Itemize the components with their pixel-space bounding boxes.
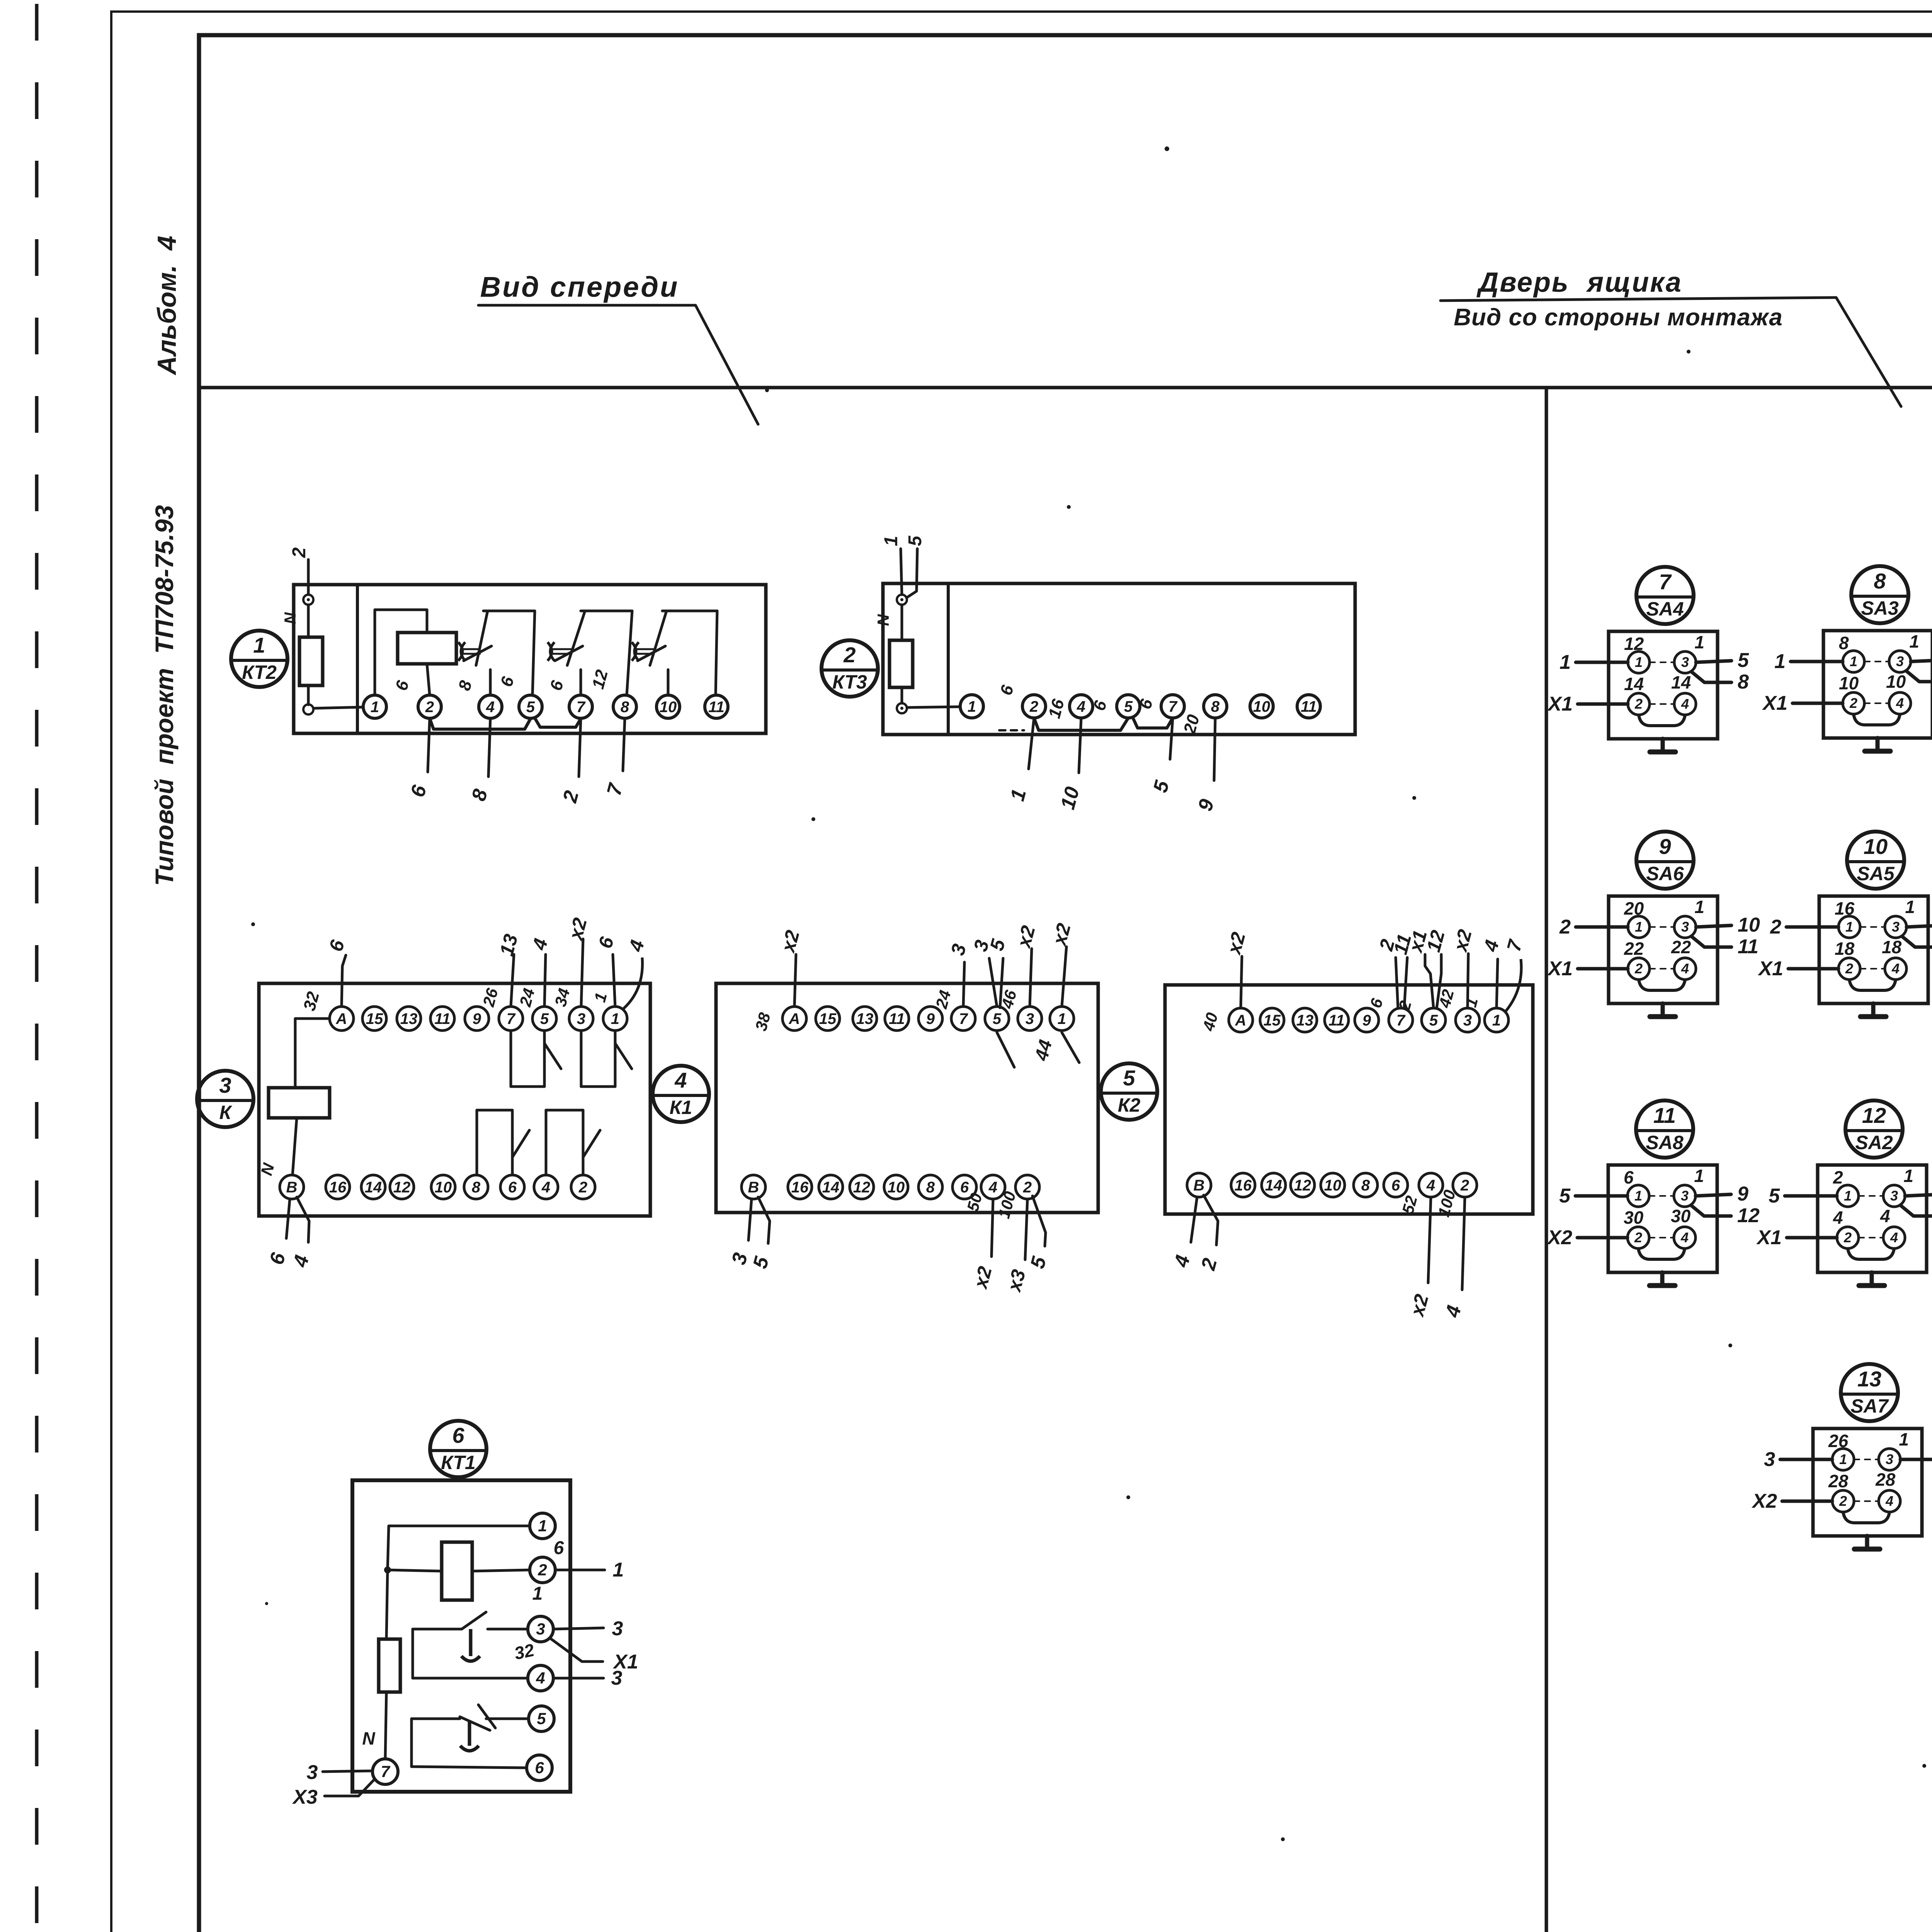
svg-text:30: 30 [1671, 1206, 1691, 1226]
relay KT3 terminal 7 [1161, 695, 1184, 718]
svg-text:14: 14 [1265, 1177, 1282, 1194]
svg-text:16: 16 [329, 1179, 347, 1196]
switch SA4 right wire to label 5 [1696, 661, 1731, 662]
svg-text:1: 1 [1774, 650, 1786, 673]
relay KT2 inner divider [356, 585, 359, 733]
relay KT2 terminal 2 [418, 695, 441, 718]
svg-text:3: 3 [307, 1761, 318, 1784]
svg-text:4: 4 [1896, 695, 1904, 711]
relay KT2 lead from terminal 2 with label 6 [428, 718, 430, 772]
switch SA6 bottom link pins 2-4 [1639, 980, 1685, 990]
svg-text:X2: X2 [1751, 1490, 1777, 1512]
relay KT3 bottom bridge 2-5 [1034, 718, 1128, 730]
relay KT2 lead from terminal 7 with label 2 [579, 718, 581, 777]
svg-text:3: 3 [1681, 654, 1689, 670]
svg-text:14: 14 [822, 1179, 840, 1196]
switch SA3 ground symbol [1876, 738, 1880, 751]
relay K lead from 5 with label 4 [544, 954, 546, 1007]
switch SA8 left wire 5 to pin 1 [1575, 1194, 1628, 1198]
svg-text:14: 14 [365, 1179, 382, 1196]
switch SA4 left wire X1 to pin 2 [1578, 702, 1628, 706]
switch SA8 pin 2 [1628, 1227, 1649, 1248]
svg-text:B: B [286, 1179, 298, 1196]
svg-text:1: 1 [881, 536, 901, 546]
svg-text:3: 3 [1681, 1188, 1689, 1204]
switch SA3 dashed links [1864, 661, 1889, 662]
svg-text:4: 4 [1890, 1230, 1898, 1245]
svg-text:3: 3 [1896, 653, 1904, 669]
svg-text:К2: К2 [1118, 1094, 1141, 1116]
relay K2 terminal 7 (top row) [1389, 1008, 1413, 1032]
relay K2 lead from 4 with label х2 [1428, 1197, 1431, 1283]
relay K2 terminal 10 (bottom row) [1321, 1173, 1345, 1197]
svg-text:7: 7 [1659, 570, 1672, 594]
relay K2 terminal 5 (top row) [1422, 1008, 1446, 1032]
svg-text:6: 6 [508, 1179, 517, 1196]
svg-text:7: 7 [1168, 698, 1178, 715]
relay K coil [269, 1088, 330, 1118]
svg-text:3: 3 [1463, 1012, 1472, 1029]
svg-text:1: 1 [1844, 1188, 1852, 1204]
svg-text:3: 3 [577, 1010, 585, 1027]
relay K2 terminal B (bottom row) [1187, 1173, 1211, 1197]
svg-text:2: 2 [1634, 1230, 1642, 1245]
relay K lead from 1 with label 6 [613, 954, 615, 1007]
svg-text:Дверь ящика: Дверь ящика [1476, 267, 1682, 298]
switch SA5 designator circle 10/SA5 [1847, 832, 1904, 889]
relay KT2 terminal 10 [656, 695, 680, 718]
relay KT2 terminal N (bottom) [303, 704, 313, 714]
relay K2 lead from A with label х2 [1241, 956, 1242, 1008]
svg-text:28: 28 [1828, 1471, 1849, 1491]
svg-text:N: N [281, 612, 299, 624]
svg-text:12: 12 [1862, 1103, 1886, 1128]
svg-text:1: 1 [1850, 653, 1857, 669]
switch SA4 ground symbol [1661, 739, 1665, 752]
svg-text:5: 5 [1123, 1066, 1135, 1090]
svg-text:3: 3 [1026, 1010, 1034, 1027]
svg-text:11: 11 [1738, 935, 1759, 958]
svg-text:7: 7 [507, 1010, 516, 1027]
svg-text:B: B [748, 1179, 759, 1196]
switch SA6 dashed links [1650, 926, 1674, 928]
svg-text:13: 13 [1296, 1012, 1314, 1029]
relay KT3 terminal 5 [1117, 695, 1140, 718]
relay K1 designator circle 4/К1 [653, 1066, 709, 1122]
switch SA3 designator circle 8/SA3 [1851, 566, 1908, 623]
svg-text:4: 4 [541, 1179, 550, 1196]
switch SA7 pin 1 [1832, 1449, 1854, 1470]
relay K terminal 1 (top row) [603, 1007, 627, 1031]
svg-text:11: 11 [708, 699, 724, 716]
switch SA6 designator circle 9/SA6 [1636, 832, 1694, 889]
svg-text:X1: X1 [1547, 693, 1573, 715]
svg-text:1: 1 [1909, 631, 1919, 651]
svg-text:N: N [362, 1728, 375, 1748]
svg-text:12: 12 [393, 1179, 411, 1196]
relay K contact 3-1 [580, 1031, 583, 1087]
svg-text:3: 3 [1681, 919, 1689, 935]
svg-text:2: 2 [1029, 698, 1038, 715]
relay KT1 wiring terminal1-junction-coil-terminal2 [388, 1526, 530, 1570]
switch SA6 ground symbol [1661, 1003, 1665, 1017]
svg-text:10: 10 [1738, 914, 1760, 936]
relay K1 terminal 7 (top row) [951, 1007, 975, 1031]
svg-text:4: 4 [1077, 698, 1085, 715]
relay KT1 diagonal lead to X1 [550, 1638, 603, 1662]
svg-text:8: 8 [1738, 671, 1749, 693]
relay K2 terminal 8 (bottom row) [1354, 1173, 1378, 1197]
relay KT2 terminal 7 [569, 695, 592, 718]
relay KT2 designator circle 1/КТ2 [231, 631, 287, 687]
svg-text:11: 11 [1301, 698, 1317, 715]
relay KT1 left lead X3 to N [325, 1780, 374, 1796]
relay KT3 terminal N (bottom) [897, 703, 907, 713]
svg-text:11: 11 [434, 1010, 451, 1027]
svg-text:SA6: SA6 [1646, 863, 1684, 884]
relay K1 lead from 1 with label х2 [1062, 947, 1066, 1007]
relay K2 leads from 7 with labels 2 and 11 [1396, 957, 1398, 1009]
switch SA3 right wire to label 7 [1911, 660, 1932, 662]
switch SA2 pin 3 [1883, 1185, 1905, 1207]
relay K coil wiring from A to B [295, 1019, 330, 1088]
relay K terminal 16 (bottom row) [326, 1175, 350, 1199]
relay K1 terminal 14 (bottom row) [819, 1175, 843, 1199]
switch SA3 right diagonal wire to label 10 [1906, 671, 1932, 682]
switch SA3 left wire X1 to pin 2 [1793, 702, 1843, 705]
svg-text:16: 16 [1235, 1177, 1252, 1194]
svg-text:22: 22 [1624, 939, 1644, 959]
relay KT2 body box [294, 585, 766, 733]
relay KT1 resistor [379, 1639, 400, 1692]
svg-text:9: 9 [1659, 834, 1671, 859]
switch SA2 right wire to label 11 [1905, 1194, 1932, 1196]
svg-text:5: 5 [1559, 1185, 1571, 1207]
svg-text:SA2: SA2 [1855, 1132, 1893, 1153]
relay K1 lead from 4 with label х2 [992, 1199, 993, 1257]
switch SA4 body box [1609, 631, 1718, 739]
svg-text:8: 8 [1211, 698, 1220, 715]
switch SA5 pin 2 [1838, 958, 1860, 980]
svg-text:1: 1 [1694, 1166, 1704, 1186]
svg-text:1: 1 [968, 698, 976, 715]
relay K2 terminal 1 (top row) [1485, 1008, 1509, 1032]
relay K body box [259, 983, 650, 1216]
switch SA5 right diagonal wire to label 9 [1902, 936, 1932, 947]
svg-text:8: 8 [1839, 633, 1849, 653]
relay K2 lead from 3 with label х2 [1468, 954, 1468, 1008]
svg-text:13: 13 [856, 1010, 874, 1027]
svg-text:18: 18 [1882, 937, 1902, 957]
switch SA7 left wire 3 to pin 1 [1780, 1458, 1832, 1461]
svg-text:2: 2 [1634, 961, 1643, 976]
svg-text:9: 9 [1362, 1012, 1371, 1029]
svg-text:6: 6 [452, 1423, 464, 1447]
svg-text:2: 2 [1844, 1230, 1852, 1245]
relay KT2 terminal 8 [613, 695, 636, 718]
switch SA5 left wire X1 to pin 2 [1788, 967, 1838, 971]
relay K1 terminal B (bottom row) [742, 1175, 765, 1199]
switch SA4 left wire 1 to pin 1 [1576, 661, 1628, 664]
switch SA6 pin 3 [1674, 916, 1696, 938]
switch SA2 body box [1818, 1165, 1927, 1272]
relay KT1 terminal 1 [530, 1513, 555, 1539]
svg-text:14: 14 [1671, 672, 1691, 692]
wire N to terminal 1 [313, 707, 363, 708]
relay KT3 terminal 4 [1070, 695, 1093, 718]
relay K terminal 13 (top row) [397, 1007, 421, 1031]
switch SA6 left wire X1 to pin 2 [1578, 967, 1628, 971]
left fold dashed line [35, 4, 39, 1932]
relay KT3 terminal 8 [1204, 695, 1227, 718]
svg-text:5: 5 [526, 699, 535, 716]
relay K2 terminal 9 (top row) [1355, 1008, 1379, 1032]
svg-text:7: 7 [959, 1010, 968, 1027]
relay K terminal 7 (top row) [499, 1007, 523, 1031]
relay KT1 timed contact lower [410, 1719, 413, 1767]
switch SA8 bottom link pins 2-4 [1638, 1248, 1685, 1259]
relay KT3 bottom bridge 5-7 [1133, 718, 1173, 728]
switch SA3 pin 3 [1889, 651, 1911, 672]
svg-text:2: 2 [1634, 696, 1643, 712]
svg-text:5: 5 [993, 1010, 1002, 1027]
svg-text:2: 2 [1833, 1167, 1843, 1187]
svg-text:13: 13 [1857, 1367, 1881, 1391]
svg-text:X1: X1 [1756, 1226, 1782, 1249]
svg-text:4: 4 [486, 699, 495, 716]
svg-text:X1: X1 [1757, 957, 1783, 980]
relay K contact 8-6 [477, 1109, 512, 1112]
relay KT1 lead terminal 3 to label 3 [553, 1628, 604, 1629]
switch SA7 dashed links [1854, 1459, 1879, 1460]
svg-text:10: 10 [1886, 672, 1906, 692]
svg-text:1: 1 [1635, 654, 1643, 670]
relay KT2 contact group 1 [483, 610, 535, 612]
svg-text:6: 6 [1391, 1177, 1400, 1194]
svg-text:1: 1 [1492, 1012, 1501, 1029]
switch SA6 pin 1 [1628, 916, 1650, 938]
relay K1 terminal 16 (bottom row) [788, 1175, 812, 1199]
top band separator line [199, 386, 1932, 389]
svg-text:10: 10 [1324, 1177, 1342, 1194]
svg-text:3: 3 [611, 1667, 622, 1689]
relay KT3 lead from terminal 7 with label 5 [1170, 718, 1173, 759]
svg-text:3: 3 [1892, 919, 1900, 935]
svg-text:К1: К1 [670, 1097, 692, 1118]
svg-text:A: A [789, 1010, 800, 1027]
switch SA6 pin 4 [1674, 958, 1696, 980]
svg-text:12: 12 [1737, 1204, 1760, 1227]
relay K leads from B with labels 6 and 4 [286, 1199, 290, 1238]
svg-text:1: 1 [611, 1010, 619, 1027]
svg-text:20: 20 [1624, 898, 1644, 918]
relay K1 body box [716, 983, 1098, 1213]
svg-text:9: 9 [926, 1010, 935, 1027]
svg-text:5: 5 [1429, 1012, 1438, 1029]
svg-text:1: 1 [1058, 1010, 1066, 1027]
relay KT3 lead from terminal 8 with label 9 [1214, 718, 1215, 781]
svg-text:7: 7 [1396, 1012, 1406, 1029]
relay K terminal 5 (top row) [532, 1007, 556, 1031]
relay KT2 contact group 2 [581, 610, 632, 612]
switch SA5 pin 1 [1838, 916, 1860, 938]
right column divider line [1545, 388, 1548, 1932]
switch SA4 dashed links [1650, 662, 1674, 663]
switch SA7 bottom link pins 2-4 [1843, 1512, 1889, 1523]
svg-text:10: 10 [1839, 673, 1859, 693]
switch SA6 body box [1609, 896, 1718, 1003]
switch SA3 bottom link pins 2-4 [1854, 714, 1900, 725]
svg-text:2: 2 [1849, 695, 1857, 711]
relay K terminal A (top row) [330, 1007, 354, 1031]
relay K1 terminal 4 (bottom row) [981, 1175, 1005, 1199]
switch SA8 right wire to label 9 [1696, 1194, 1731, 1196]
switch SA7 designator circle 13/SA7 [1841, 1364, 1898, 1421]
relay KT2 coil [398, 633, 456, 664]
switch SA5 bottom link pins 2-4 [1849, 980, 1896, 990]
svg-text:2: 2 [1845, 961, 1853, 976]
relay K2 body box [1165, 985, 1533, 1214]
svg-text:8: 8 [926, 1179, 935, 1196]
relay K1 contact diagonal below 5 [997, 1032, 1014, 1067]
relay KT2 terminal 5 [519, 695, 542, 718]
relay K2 terminal 13 (top row) [1293, 1008, 1317, 1032]
switch SA4 bottom link pins 2-4 [1639, 715, 1685, 726]
relay KT2 bottom bridge 5-7 [535, 719, 581, 727]
relay K1 terminal 2 (bottom row) [1015, 1175, 1039, 1199]
svg-text:SA3: SA3 [1861, 597, 1898, 619]
svg-text:30: 30 [1624, 1207, 1644, 1228]
switch SA2 right diagonal wire to label 13 [1900, 1205, 1932, 1216]
svg-text:2: 2 [1023, 1179, 1032, 1196]
svg-text:10: 10 [1253, 698, 1270, 715]
switch SA7 pin 3 [1879, 1449, 1900, 1470]
svg-text:1: 1 [532, 1583, 543, 1604]
relay KT1 terminal 4 [528, 1665, 553, 1691]
relay K curved lead from 1 with label 4 [624, 957, 643, 1009]
relay KT3 terminal 11 [1297, 695, 1320, 718]
svg-text:4: 4 [1681, 961, 1689, 976]
relay K1 leads from 5 with labels 3 and 5 [989, 958, 997, 1007]
svg-text:2: 2 [425, 699, 434, 716]
relay KT1 terminal 5 [529, 1706, 554, 1731]
svg-text:15: 15 [366, 1010, 383, 1027]
svg-text:4: 4 [1880, 1206, 1890, 1226]
relay KT2 linkage contact1 to contact 2 [551, 648, 571, 650]
switch SA8 designator circle 11/SA8 [1636, 1100, 1693, 1158]
svg-text:11: 11 [1653, 1103, 1676, 1128]
svg-text:14: 14 [1624, 674, 1644, 694]
relay K terminal 9 (top row) [465, 1007, 489, 1031]
switch SA7 pin 4 [1879, 1490, 1900, 1512]
relay KT3 lead from terminal 4 with label 10 [1079, 718, 1081, 773]
relay KT3 terminal 1 [960, 695, 983, 718]
svg-text:SA5: SA5 [1857, 863, 1895, 884]
switch SA8 pin 4 [1674, 1227, 1696, 1248]
relay KT1 terminal 2 [530, 1557, 555, 1583]
switch SA7 left wire X2 to pin 2 [1782, 1500, 1832, 1503]
switch SA5 pin 4 [1885, 958, 1906, 980]
relay KT3 designator circle 2/КТ3 [821, 640, 878, 697]
relay KT2 lead from terminal 8 with label 7 [623, 718, 625, 771]
relay KT3 body box [883, 583, 1355, 735]
relay K1 terminal 9 (top row) [918, 1007, 942, 1031]
svg-text:2: 2 [1460, 1177, 1469, 1194]
svg-text:1: 1 [1899, 1429, 1909, 1449]
relay K terminal 2 (bottom row) [571, 1175, 595, 1199]
svg-text:2: 2 [843, 643, 855, 667]
relay KT2 lead from terminal 4 with label 8 [488, 718, 490, 777]
svg-text:1: 1 [538, 1517, 547, 1535]
svg-text:1: 1 [1634, 1188, 1642, 1204]
switch SA7 body box [1813, 1429, 1922, 1536]
svg-text:11: 11 [1328, 1012, 1345, 1029]
relay KT2 terminal N (top) [303, 595, 313, 605]
switch SA2 pin 2 [1837, 1227, 1859, 1248]
svg-text:4: 4 [1891, 961, 1900, 976]
relay K1 terminal 8 (bottom row) [918, 1175, 942, 1199]
relay K terminal B (bottom row) [280, 1175, 304, 1199]
relay KT3 dashed stub near terminal 2 [999, 729, 1024, 731]
svg-text:6: 6 [1624, 1167, 1634, 1187]
svg-text:8: 8 [472, 1179, 481, 1196]
svg-text:2: 2 [578, 1179, 587, 1196]
relay KT2 coil wiring [375, 610, 427, 695]
switch SA5 dashed links [1860, 926, 1885, 928]
relay KT1 timed contact upper [412, 1629, 414, 1678]
relay K1 lead from 7 with label 3 [963, 962, 964, 1007]
relay K2 terminal 6 (bottom row) [1384, 1173, 1408, 1197]
relay K2 terminal 4 (bottom row) [1419, 1173, 1443, 1197]
relay KT3 inner divider [947, 583, 950, 735]
svg-text:Типовой проект ТП708-75.93: Типовой проект ТП708-75.93 [150, 505, 179, 886]
svg-text:5: 5 [540, 1010, 549, 1027]
svg-text:3: 3 [219, 1073, 231, 1097]
relay K2 leads from 5 with labels х1 and 12 [1425, 954, 1434, 1008]
relay K terminal 4 (bottom row) [534, 1175, 558, 1199]
svg-text:4: 4 [674, 1068, 687, 1092]
svg-text:18: 18 [1835, 939, 1855, 959]
relay KT1 lead terminal 2 to label 1 [555, 1569, 605, 1571]
relay K1 leads from B with labels 3 and 5 [748, 1199, 752, 1240]
svg-text:28: 28 [1875, 1469, 1896, 1490]
switch SA3 pin 4 [1889, 692, 1911, 714]
relay K2 terminal 16 (bottom row) [1231, 1173, 1255, 1197]
svg-text:2: 2 [1770, 916, 1781, 938]
relay K2 lead from 2 with label 4 [1462, 1197, 1465, 1290]
relay K2 terminal 14 (bottom row) [1262, 1173, 1286, 1197]
svg-text:13: 13 [400, 1010, 418, 1027]
relay KT2 terminal 11 [705, 695, 728, 718]
relay KT1 terminal 3 [528, 1616, 553, 1642]
svg-text:5: 5 [905, 535, 925, 546]
switch SA2 left wire 5 to pin 1 [1785, 1194, 1837, 1198]
relay KT1 terminal 7 (N) [372, 1759, 398, 1784]
relay KT2 bottom bridge 2-5 [430, 718, 531, 729]
switch SA8 body box [1608, 1165, 1717, 1272]
svg-text:SA7: SA7 [1850, 1395, 1889, 1417]
switch SA6 pin 2 [1628, 958, 1650, 980]
relay K2 terminal 12 (bottom row) [1291, 1173, 1315, 1197]
svg-text:2: 2 [1559, 916, 1571, 938]
relay K1 lead from 2 with label х3 [1025, 1199, 1027, 1260]
svg-text:КТ1: КТ1 [441, 1452, 476, 1473]
svg-text:12: 12 [853, 1179, 871, 1196]
switch SA2 designator circle 12/SA2 [1845, 1100, 1903, 1158]
switch SA8 ground symbol [1660, 1272, 1665, 1286]
svg-text:SA8: SA8 [1646, 1132, 1683, 1153]
svg-text:Альбом. 4: Альбом. 4 [152, 236, 182, 376]
